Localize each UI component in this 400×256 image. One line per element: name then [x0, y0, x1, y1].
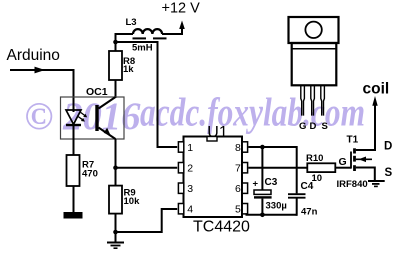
op-amp driver U1 body: [184, 137, 243, 218]
svg-text:+12 V: +12 V: [162, 1, 201, 17]
svg-text:R10: R10: [306, 153, 323, 164]
svg-text:4: 4: [187, 204, 193, 216]
wire L3 right to +12V arrow: [162, 28, 182, 34]
svg-text:U1: U1: [207, 124, 228, 141]
svg-text:Arduino: Arduino: [7, 47, 60, 64]
wire LED cathode to R7: [73, 125, 75, 155]
TO-220 leg G: [301, 85, 305, 115]
svg-text:G: G: [299, 121, 306, 132]
wire drain to coil: [356, 106, 375, 151]
node A junction: [113, 40, 118, 45]
svg-text:C3: C3: [265, 177, 278, 188]
transistor T1 MOSFET: [351, 148, 372, 171]
wire C4 top lead: [296, 146, 298, 193]
svg-text:T1: T1: [347, 135, 359, 146]
coil arrow: [372, 96, 377, 106]
pin 3 box: [178, 183, 183, 193]
svg-text:OC1: OC1: [86, 86, 108, 98]
svg-text:1k: 1k: [123, 64, 134, 75]
LED light arrow 2: [78, 117, 85, 122]
resistor R9: [109, 186, 122, 214]
TO-220 leg S: [321, 85, 325, 115]
pin 4 box: [178, 204, 183, 214]
inductor L3: [133, 29, 167, 38]
TO-220 body line: [292, 48, 337, 50]
svg-text:IRF840: IRF840: [337, 179, 368, 190]
capacitor C4: [288, 194, 306, 198]
wire OC1 emitter to node B: [115, 139, 117, 168]
phototransistor of OC1: [95, 97, 115, 139]
wire R7 to ground bar: [73, 186, 75, 212]
capacitor C3 (polarized): [254, 190, 272, 199]
svg-text:5: 5: [235, 204, 241, 216]
svg-text:+: +: [253, 179, 259, 190]
svg-text:TC4420: TC4420: [193, 219, 250, 236]
pin 6 box: [242, 183, 247, 193]
wire L3 left to node A: [116, 34, 134, 42]
svg-text:S: S: [322, 121, 328, 132]
ground (earth) under R9: [107, 232, 124, 248]
node B junction: [113, 165, 118, 170]
LED light arrow 1: [81, 112, 88, 117]
wire node A to R8: [115, 42, 117, 51]
ground bar (filled): [64, 212, 83, 219]
svg-text:47n: 47n: [301, 207, 318, 218]
pin 5 box: [242, 204, 247, 214]
svg-text:G: G: [339, 156, 347, 168]
wire source to ground: [356, 168, 375, 182]
svg-text:acdc.foxylab.com: acdc.foxylab.com: [140, 90, 365, 135]
wire pin 5 rail: [247, 213, 297, 215]
svg-text:330µ: 330µ: [266, 201, 287, 212]
svg-text:10k: 10k: [124, 196, 141, 207]
resistor R10: [307, 163, 335, 172]
wire R9 to node C: [115, 214, 117, 232]
U1 notch: [207, 137, 217, 142]
wire arrowhead: [35, 67, 46, 74]
wire C3 top lead: [261, 147, 263, 190]
wire pin 8 to C4 top: [248, 146, 296, 148]
svg-text:2: 2: [187, 163, 193, 175]
wire node C to pin 4: [116, 209, 178, 232]
svg-text:S: S: [385, 167, 393, 179]
svg-text:1: 1: [187, 142, 193, 154]
svg-text:7: 7: [235, 163, 241, 175]
optocoupler OC1 box: [61, 97, 125, 139]
TO-220 leg D: [311, 85, 315, 115]
wire node B to pin 2: [116, 167, 178, 169]
wire C3 bottom lead: [261, 199, 263, 215]
power +12V arrow: [179, 21, 185, 30]
svg-text:6: 6: [235, 183, 241, 195]
TO-220 body: [292, 43, 337, 85]
pin 7 box: [242, 163, 247, 173]
svg-text:D: D: [310, 121, 317, 132]
wire R8 to OC1 collector: [115, 80, 117, 98]
TO-220 hole: [305, 22, 321, 38]
pin 1 box: [178, 142, 183, 152]
wire C4 bottom lead: [296, 199, 298, 216]
pin 8 box: [242, 142, 247, 152]
node VDD junction at C3: [260, 145, 265, 150]
svg-text:8: 8: [235, 142, 241, 154]
wire R10 to gate: [335, 167, 351, 169]
resistor R8: [109, 51, 122, 80]
transistor package TO-220 tab: [289, 17, 339, 43]
LED anode wire inside OC1: [73, 108, 75, 112]
wire node B to R9: [115, 168, 117, 186]
node C junction: [113, 230, 118, 235]
node GND junction at C3: [260, 213, 265, 218]
pin 2 box: [178, 163, 183, 173]
wire pin 7 to R10: [248, 167, 307, 169]
svg-text:L3: L3: [126, 17, 137, 28]
svg-text:D: D: [384, 141, 392, 153]
svg-text:5mH: 5mH: [132, 43, 153, 54]
resistor R7: [67, 155, 80, 186]
wire node A to VDD rail: [116, 42, 178, 147]
svg-text:10: 10: [312, 173, 323, 184]
ground at source: [368, 181, 385, 186]
svg-text:470: 470: [82, 169, 98, 180]
svg-text:3: 3: [187, 183, 193, 195]
wire Arduino input: [10, 70, 74, 110]
svg-text:coil: coil: [363, 81, 390, 98]
LED of OC1: [66, 110, 81, 125]
